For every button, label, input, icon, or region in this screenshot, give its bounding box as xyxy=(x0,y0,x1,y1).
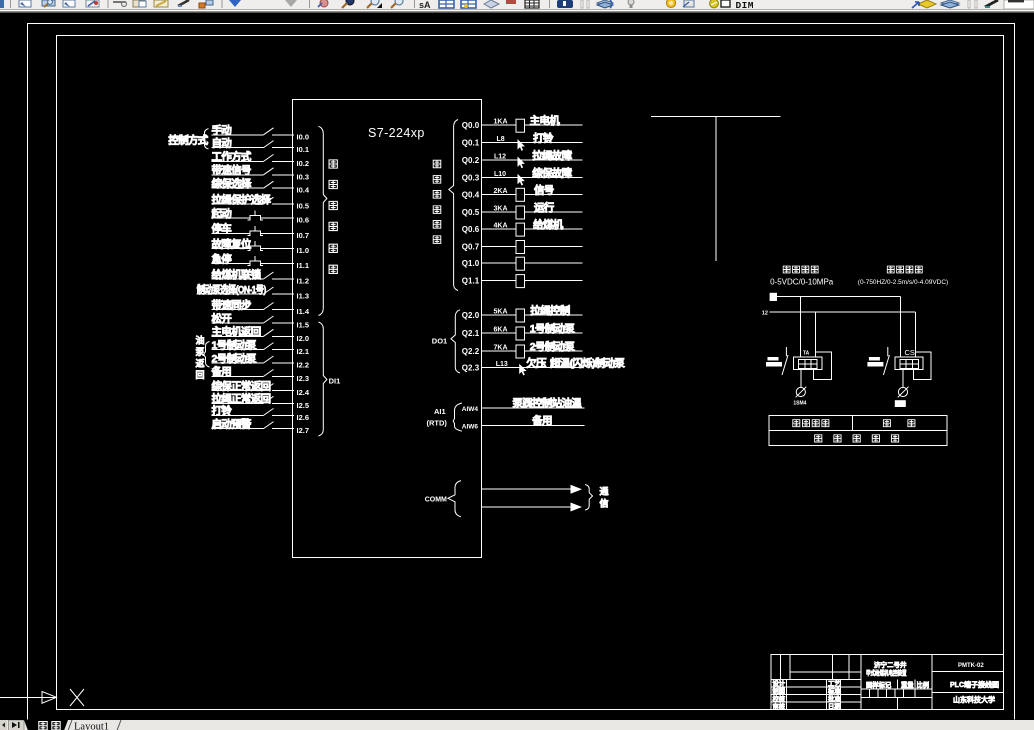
svg-text:运行: 运行 xyxy=(534,201,555,214)
output Q0.6 relay 4KA 给煤机 xyxy=(462,218,583,236)
brace AI1 group xyxy=(453,403,462,431)
svg-text:备用: 备用 xyxy=(531,414,552,427)
svg-text:比例: 比例 xyxy=(917,680,930,689)
svg-text:I2.2: I2.2 xyxy=(297,361,310,370)
layout tab separators xyxy=(68,720,121,730)
toolbar icon info blue xyxy=(557,0,573,8)
svg-text:校核: 校核 xyxy=(773,694,786,703)
svg-text:PLC端子接线图: PLC端子接线图 xyxy=(950,680,999,689)
toolbar icon brush dark xyxy=(178,0,189,6)
svg-text:故障复位: 故障复位 xyxy=(212,237,252,250)
svg-text:综保正常返回: 综保正常返回 xyxy=(212,379,271,392)
svg-text:0-5VDC/0-10MPa: 0-5VDC/0-10MPa xyxy=(770,277,834,286)
svg-text:Q2.2: Q2.2 xyxy=(462,347,480,356)
output Q0.2 lamp L12 拉绳故障 xyxy=(462,149,583,168)
svg-text:Q0.2: Q0.2 xyxy=(462,156,480,165)
svg-text:DI1: DI1 xyxy=(329,377,341,386)
svg-text:综保故障: 综保故障 xyxy=(532,166,572,179)
UCS icon X letter xyxy=(70,689,84,706)
svg-text:7KA: 7KA xyxy=(494,345,508,352)
svg-text:打铃: 打铃 xyxy=(212,404,233,417)
label 数字显示表 xyxy=(815,435,899,442)
svg-text:I1.0: I1.0 xyxy=(297,246,310,255)
toolbar icon make layer xyxy=(912,0,936,8)
svg-text:2KA: 2KA xyxy=(494,188,508,195)
label 变换过程 left xyxy=(783,266,818,273)
svg-text:L10: L10 xyxy=(494,171,506,178)
svg-text:起动: 起动 xyxy=(211,207,233,220)
svg-text:Q0.1: Q0.1 xyxy=(462,139,480,148)
svg-text:I2.6: I2.6 xyxy=(297,413,310,422)
brace 控制方式 xyxy=(203,129,209,149)
svg-text:I1.1: I1.1 xyxy=(297,261,310,270)
brace 通信 xyxy=(585,485,592,511)
svg-text:AIW4: AIW4 xyxy=(462,406,479,413)
transducer TA terminal block xyxy=(793,357,821,370)
input I1.1 急停 pushbutton xyxy=(212,252,310,270)
svg-text:AI1: AI1 xyxy=(434,407,446,416)
svg-text:1号制动泵: 1号制动泵 xyxy=(212,338,258,351)
svg-text:重量: 重量 xyxy=(901,680,914,689)
contact symbol left of CS xyxy=(867,347,889,375)
svg-text:TA: TA xyxy=(803,351,810,357)
toolbar icon table yellow dot xyxy=(461,0,476,8)
svg-text:I2.7: I2.7 xyxy=(297,426,310,435)
svg-text:批准: 批准 xyxy=(828,694,841,703)
svg-text:松开: 松开 xyxy=(212,312,233,325)
svg-text:L13: L13 xyxy=(496,361,508,368)
svg-text:制动泵选择(ON-1号): 制动泵选择(ON-1号) xyxy=(197,283,266,296)
svg-text:I2.4: I2.4 xyxy=(297,388,310,397)
svg-text:I1.4: I1.4 xyxy=(297,307,310,316)
contact symbol left of TA xyxy=(766,347,788,375)
brace input group xyxy=(318,126,327,315)
svg-text:I0.3: I0.3 xyxy=(297,172,310,181)
svg-text:Q0.4: Q0.4 xyxy=(462,190,480,199)
plug symbol below CS xyxy=(898,370,909,398)
svg-text:I0.0: I0.0 xyxy=(297,132,310,141)
svg-text:手动: 手动 xyxy=(212,124,233,137)
title text left column labels xyxy=(773,679,842,711)
svg-text:回: 回 xyxy=(196,370,205,380)
input I0.0 手动 xyxy=(212,124,310,142)
analog input AIW4 泵阀控制站油温 xyxy=(462,396,585,413)
svg-text:给煤机联锁: 给煤机联锁 xyxy=(212,268,262,281)
output Q2.2 relay 7KA 2号制动泵 xyxy=(462,340,583,358)
svg-text:工艺: 工艺 xyxy=(828,679,841,688)
input I2.2 2号制动泵 xyxy=(212,352,310,370)
svg-text:DO1: DO1 xyxy=(432,337,447,346)
toolbar icon undo mark xyxy=(199,0,213,8)
wire bus A xyxy=(777,297,900,357)
svg-text:返: 返 xyxy=(196,358,205,369)
model tab active dark xyxy=(24,720,68,730)
svg-text:泵阀控制站油温: 泵阀控制站油温 xyxy=(513,396,583,409)
PLC box U1 xyxy=(292,100,481,558)
svg-text:I2.0: I2.0 xyxy=(297,334,310,343)
input I2.1 1号制动泵 xyxy=(212,338,310,356)
toolbar icon table blue xyxy=(439,0,454,8)
input I2.5 拉绳正常返回 xyxy=(212,392,310,410)
svg-text:PMTK-02: PMTK-02 xyxy=(958,663,984,669)
svg-text:标准: 标准 xyxy=(827,686,841,695)
svg-text:主电机: 主电机 xyxy=(530,114,561,127)
svg-text:S7-224xp: S7-224xp xyxy=(368,126,425,140)
svg-text:L8: L8 xyxy=(497,136,505,143)
input I2.4 综保正常返回 xyxy=(212,379,310,397)
svg-text:Q0.5: Q0.5 xyxy=(462,208,480,217)
svg-text:1SM4: 1SM4 xyxy=(793,400,806,406)
svg-text:I2.1: I2.1 xyxy=(297,347,310,356)
svg-text:Q1.0: Q1.0 xyxy=(462,259,480,268)
output Q0.4 relay 2KA 信号 xyxy=(462,183,583,201)
svg-text:启动预警: 启动预警 xyxy=(212,417,252,430)
output Q0.3 lamp L10 综保故障 xyxy=(462,166,583,185)
svg-text:CS: CS xyxy=(905,348,915,357)
svg-text:I0.4: I0.4 xyxy=(297,186,310,195)
svg-text:信: 信 xyxy=(600,498,609,509)
toolbar separator xyxy=(10,0,11,8)
vertical text 本机集成输入 xyxy=(329,160,337,274)
input I0.5 拉绳保护选择 xyxy=(212,193,310,211)
brace 油泵返回 xyxy=(204,342,210,368)
output Q1.0 relay xyxy=(462,257,583,270)
toolbar icon link xyxy=(113,2,127,7)
wire bus B xyxy=(770,312,916,357)
toolbar icon blue curl xyxy=(610,0,612,8)
input I1.4 带速同步 xyxy=(212,298,310,316)
toolbar icon zoom realtime xyxy=(342,0,354,8)
toolbar icon bulb xyxy=(628,0,634,8)
toolbar icon paste xyxy=(133,0,146,7)
toolbar icon grid table xyxy=(525,0,539,8)
svg-text:打铃: 打铃 xyxy=(533,132,554,145)
input I2.7 启动预警 xyxy=(212,417,310,435)
svg-text:3KA: 3KA xyxy=(494,206,508,213)
output Q2.0 relay 5KA 拉绳控制 xyxy=(462,304,583,322)
svg-text:2号制动泵: 2号制动泵 xyxy=(530,340,576,353)
svg-text:主电机返回: 主电机返回 xyxy=(212,325,261,338)
output Q0.5 relay 3KA 运行 xyxy=(462,201,583,219)
svg-text:12: 12 xyxy=(762,311,768,317)
toolbar icon new doc xyxy=(19,0,31,7)
display table frame xyxy=(769,415,947,445)
svg-text:Q0.7: Q0.7 xyxy=(462,243,480,252)
brace output group xyxy=(449,120,458,291)
svg-text:超温(闪烁)制动泵: 超温(闪烁)制动泵 xyxy=(549,356,625,369)
svg-text:拉绳控制: 拉绳控制 xyxy=(530,304,569,317)
toolbar icon zoom prev xyxy=(391,0,403,8)
toolbar icon pan xyxy=(318,0,328,7)
toolbar icon white box xyxy=(721,0,730,7)
UCS icon X axis xyxy=(0,692,57,704)
vertical text 通信 xyxy=(600,486,609,509)
power terminal square xyxy=(770,293,777,301)
svg-text:(RTD): (RTD) xyxy=(427,419,448,428)
svg-text:I1.5: I1.5 xyxy=(297,321,310,330)
svg-text:制图: 制图 xyxy=(773,686,786,695)
input I2.3 备用 xyxy=(211,365,310,383)
svg-text:1号制动泵: 1号制动泵 xyxy=(530,322,576,335)
svg-text:(0-750HZ/0-2.5m/s/0-4.09VDC): (0-750HZ/0-2.5m/s/0-4.09VDC) xyxy=(858,279,948,286)
feedback loop CS xyxy=(914,352,932,380)
svg-text:I0.7: I0.7 xyxy=(297,231,310,240)
toolbar icon zoom window xyxy=(367,0,382,8)
svg-text:I1.3: I1.3 xyxy=(297,292,310,301)
toolbar separator xyxy=(222,0,223,8)
toolbar grip xyxy=(581,0,589,8)
input I0.2 工作方式 xyxy=(212,150,310,168)
svg-text:I0.5: I0.5 xyxy=(297,202,310,211)
toolbar icon layers2 xyxy=(941,0,959,8)
toolbar combo white xyxy=(1004,0,1034,9)
input I0.6 起动 pushbutton xyxy=(211,207,310,225)
svg-text:带速同步: 带速同步 xyxy=(212,298,252,311)
input I2.6 打铃 xyxy=(212,404,310,422)
svg-text:给煤机: 给煤机 xyxy=(533,218,564,231)
svg-text:Q2.3: Q2.3 xyxy=(462,364,480,373)
svg-text:信号: 信号 xyxy=(534,183,554,196)
output Q2.3 lamp L13 欠压超温 xyxy=(462,356,626,375)
output Q0.7 relay xyxy=(462,241,583,254)
brace DI1 group xyxy=(318,322,327,436)
svg-text:山东科技大学: 山东科技大学 xyxy=(953,695,995,704)
input I1.3 制动泵选择 xyxy=(197,283,309,301)
toolbar grip2 xyxy=(968,0,977,8)
toolbar icon lock arrow xyxy=(683,0,694,7)
svg-text:拉绳故障: 拉绳故障 xyxy=(532,149,572,162)
svg-text:甲式给煤机电控装置: 甲式给煤机电控装置 xyxy=(866,668,907,677)
svg-text:Q2.0: Q2.0 xyxy=(462,311,480,320)
svg-text:I0.6: I0.6 xyxy=(297,216,310,225)
svg-text:审核: 审核 xyxy=(773,701,786,710)
svg-text:通: 通 xyxy=(600,486,609,497)
title text 图样标记 重量 比例 xyxy=(866,680,929,689)
analog input AIW6 备用 xyxy=(462,414,585,431)
input I0.3 带速信号 xyxy=(212,164,310,182)
vertical text 本机集成输出 xyxy=(433,160,441,243)
svg-text:油: 油 xyxy=(196,335,205,346)
brace COMM group xyxy=(448,481,461,517)
svg-text:AIW6: AIW6 xyxy=(462,424,479,431)
toolbar icon brush2 xyxy=(985,0,998,7)
svg-text:4KA: 4KA xyxy=(494,223,508,230)
input I1.2 给煤机联锁 xyxy=(212,268,310,286)
title block frame xyxy=(771,655,1003,710)
terminal block below CS xyxy=(895,400,906,407)
toolbar icon matchprop xyxy=(154,0,168,7)
toolbar icon plot xyxy=(86,0,99,7)
svg-text:Q0.6: Q0.6 xyxy=(462,225,480,234)
svg-text:Q0.3: Q0.3 xyxy=(462,173,480,182)
svg-text:备用: 备用 xyxy=(211,365,232,378)
svg-text:停车: 停车 xyxy=(212,222,233,235)
toolbar icon preview xyxy=(42,0,55,7)
input I0.1 自动 xyxy=(212,136,310,154)
toolbar icon redo arrow gray xyxy=(285,0,297,7)
toolbar separator xyxy=(309,0,310,8)
toolbar icon red fragment xyxy=(506,0,516,4)
label 带速 xyxy=(883,420,915,427)
svg-text:欠压: 欠压 xyxy=(526,356,547,369)
svg-text:I2.5: I2.5 xyxy=(297,401,310,410)
svg-text:2号制动泵: 2号制动泵 xyxy=(212,352,258,365)
model tab label 模型 xyxy=(39,721,60,729)
output Q2.1 relay 6KA 1号制动泵 xyxy=(462,322,583,340)
toolbar icon sun xyxy=(666,0,675,8)
svg-text:图样标记: 图样标记 xyxy=(866,680,892,689)
COMM wire 1 with arrow xyxy=(482,485,583,494)
input I2.0 主电机返回 xyxy=(212,325,310,343)
svg-text:拉绳正常返回: 拉绳正常返回 xyxy=(212,392,271,405)
brace DO1 group xyxy=(451,310,460,373)
svg-text:L12: L12 xyxy=(494,154,506,161)
vertical text 油泵返回 xyxy=(196,335,206,381)
toolbar icon fragment blue xyxy=(0,0,4,8)
output Q0.1 lamp L8 打铃 xyxy=(462,132,583,151)
feedback loop TA xyxy=(814,352,832,380)
input I0.4 综保选择 xyxy=(212,177,310,195)
svg-text:1KA: 1KA xyxy=(494,119,508,126)
svg-text:Q1.1: Q1.1 xyxy=(462,277,480,286)
toolbar separator xyxy=(414,0,415,8)
svg-text:I1.2: I1.2 xyxy=(297,277,310,286)
svg-text:急停: 急停 xyxy=(212,252,233,265)
svg-text:Q0.0: Q0.0 xyxy=(462,121,480,130)
svg-text:拉绳保护选择: 拉绳保护选择 xyxy=(212,193,272,206)
svg-text:日期: 日期 xyxy=(828,701,841,710)
svg-text:I2.3: I2.3 xyxy=(297,374,310,383)
svg-text:带速信号: 带速信号 xyxy=(212,164,251,177)
input I0.7 停车 pushbutton xyxy=(212,222,310,240)
label 制动油压 xyxy=(793,420,829,427)
svg-text:5KA: 5KA xyxy=(494,309,508,316)
svg-text:COMM: COMM xyxy=(425,496,447,503)
svg-text:6KA: 6KA xyxy=(494,327,508,334)
toolbar icon yellow ball xyxy=(710,0,719,8)
toolbar icon layers stack xyxy=(597,0,613,8)
svg-text:设计: 设计 xyxy=(773,679,786,688)
svg-text:I0.2: I0.2 xyxy=(297,159,310,168)
toolbar separator xyxy=(108,0,109,8)
toolbar icon undo arrow xyxy=(229,0,241,7)
status tab bar xyxy=(0,720,1034,730)
toolbar icon doc2 xyxy=(63,0,75,7)
plug symbol below TA xyxy=(796,370,807,398)
input I1.0 故障复位 pushbutton xyxy=(212,237,310,255)
toolbar separator xyxy=(549,0,550,8)
label 变换过程 right xyxy=(887,266,922,273)
svg-text:自动: 自动 xyxy=(212,136,233,149)
svg-text:综保选择: 综保选择 xyxy=(212,177,252,190)
COMM wire 2 with arrow xyxy=(482,503,583,512)
svg-text:I0.1: I0.1 xyxy=(297,145,310,154)
tab nav buttons xyxy=(0,720,7,730)
svg-text:工作方式: 工作方式 xyxy=(212,150,252,163)
transducer CS terminal block xyxy=(895,357,923,370)
svg-text:济宁二号井: 济宁二号井 xyxy=(874,660,907,669)
input I1.5 松开 xyxy=(212,312,310,330)
svg-text:Q2.1: Q2.1 xyxy=(462,329,480,338)
output Q1.1 relay xyxy=(462,275,583,288)
wire T node xyxy=(651,116,781,261)
output Q0.0 relay 1KA 主电机 xyxy=(462,114,583,132)
toolbar icon sheets xyxy=(484,0,499,8)
toolbar xyxy=(0,0,1034,13)
